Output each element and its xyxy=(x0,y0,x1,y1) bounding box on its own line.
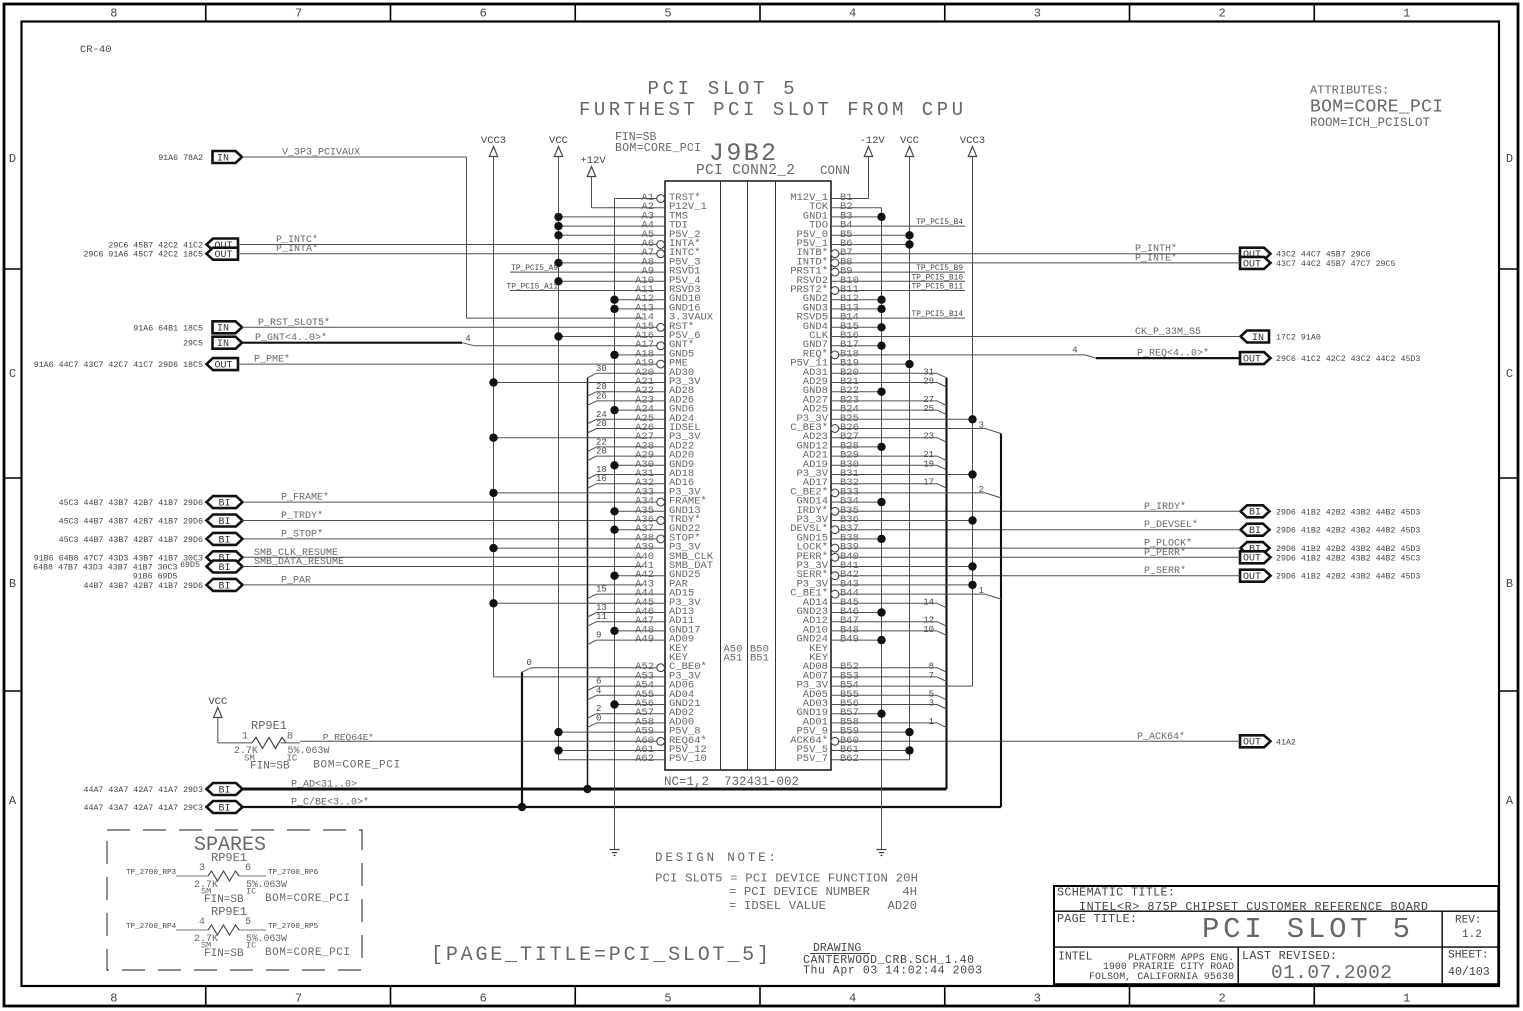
port IN P_RST_SLOT5* xyxy=(213,321,243,333)
port OUT P_PERR* xyxy=(1240,551,1271,563)
power symbol VCC xyxy=(214,708,222,718)
pin A49 AD09 xyxy=(587,631,694,646)
pin A50 KEY xyxy=(669,643,689,655)
pin A4 TDI xyxy=(554,220,688,232)
svg-text:1: 1 xyxy=(1403,7,1410,21)
svg-text:69D5: 69D5 xyxy=(180,561,200,570)
pin A22 AD28 xyxy=(587,382,694,397)
pin A9 RSVD1 xyxy=(510,265,701,278)
svg-text:91A6 64B1 18C5: 91A6 64B1 18C5 xyxy=(133,324,203,333)
svg-text:29C6 91A6 45C7 42C2 18C5: 29C6 91A6 45C7 42C2 18C5 xyxy=(84,251,204,260)
wire P_DEVSEL* from pin B37 xyxy=(839,529,1241,531)
wire P_INTA* to pin A7 xyxy=(238,253,657,255)
port IN V_3P3_PCIVAUX xyxy=(213,151,243,163)
svg-text:PCI SLOT5 = PCI DEVICE FUNCTIO: PCI SLOT5 = PCI DEVICE FUNCTION 20H xyxy=(655,872,918,886)
svg-text:TP_PCI5_B9: TP_PCI5_B9 xyxy=(916,265,963,273)
svg-text:B51: B51 xyxy=(750,653,769,665)
wire P_INTC* to pin A6 xyxy=(238,244,657,246)
port BI SMB_DATA_RESUME xyxy=(207,561,243,573)
svg-text:TP_PCI5_A9: TP_PCI5_A9 xyxy=(511,265,558,273)
svg-text:BI: BI xyxy=(1249,508,1261,519)
svg-text:SHEET:: SHEET: xyxy=(1448,949,1489,961)
pin A55 AD04 xyxy=(587,686,694,701)
svg-text:2: 2 xyxy=(979,485,984,495)
GND rail right xyxy=(881,208,883,850)
svg-text:BI: BI xyxy=(218,517,230,528)
pin A20 AD30 xyxy=(587,364,694,379)
svg-text:BI: BI xyxy=(1249,526,1261,537)
ground symbol left xyxy=(610,850,620,856)
svg-text:OUT: OUT xyxy=(1243,355,1261,366)
pin A46 AD13 xyxy=(587,603,694,618)
pin B38 GND15 xyxy=(796,532,885,544)
svg-text:= PCI DEVICE NUMBER: = PCI DEVICE NUMBER xyxy=(729,885,871,899)
svg-text:TP_2700_RP5: TP_2700_RP5 xyxy=(268,923,319,931)
svg-text:BI: BI xyxy=(218,563,230,574)
svg-text:3: 3 xyxy=(1034,992,1041,1006)
svg-text:2: 2 xyxy=(1218,7,1225,21)
bus P_AD<31..0> xyxy=(243,788,947,791)
svg-text:16: 16 xyxy=(596,474,607,484)
wire P_FRAME* to pin A34 xyxy=(243,501,657,503)
svg-text:17: 17 xyxy=(923,478,934,488)
power symbol +12V xyxy=(587,167,595,177)
pin A35 GND13 xyxy=(610,505,700,517)
svg-text:91A6 44C7 43C7 42C7 41C7 29D6: 91A6 44C7 43C7 42C7 41C7 29D6 18C5 xyxy=(34,361,203,370)
wire P_PLOCK* from pin B39 xyxy=(839,547,1241,549)
svg-text:IN: IN xyxy=(217,153,229,164)
power symbol VCC xyxy=(905,147,913,157)
svg-text:OUT: OUT xyxy=(1243,259,1261,270)
wire P_INTH* from pin B7 xyxy=(839,253,1240,255)
svg-text:VCC: VCC xyxy=(549,135,568,147)
bus P_C/BE<3..0>* xyxy=(243,806,1002,808)
port BI P_C/BE<3..0>* xyxy=(207,801,243,813)
pin A28 AD22 xyxy=(587,437,694,452)
svg-text:19: 19 xyxy=(923,459,934,469)
svg-text:A51: A51 xyxy=(724,653,743,665)
svg-text:1: 1 xyxy=(929,717,934,727)
svg-text:8: 8 xyxy=(110,992,117,1006)
pin A10 P5V_4 xyxy=(554,275,700,287)
svg-text:41A2: 41A2 xyxy=(1276,738,1296,747)
port BI P_FRAME* xyxy=(207,496,243,508)
svg-text:8: 8 xyxy=(287,731,293,743)
svg-text:TP_PCI5_B4: TP_PCI5_B4 xyxy=(916,219,963,227)
svg-text:25: 25 xyxy=(923,404,934,414)
svg-text:VCC3: VCC3 xyxy=(481,135,506,147)
wire P_REQ64E* to pin A60 xyxy=(281,742,301,744)
svg-text:IC: IC xyxy=(246,887,256,897)
pin A26 IDSEL xyxy=(587,419,700,434)
pin A41 SMB_DAT xyxy=(635,560,713,572)
pin B1 M12V_1 xyxy=(790,192,852,204)
pin B27 AD23 xyxy=(803,431,947,443)
svg-text:4H: 4H xyxy=(902,885,917,899)
pin B23 AD27 xyxy=(803,394,947,406)
svg-text:6: 6 xyxy=(245,863,251,874)
pin A58 AD00 xyxy=(587,713,694,728)
pin B17 GND7 xyxy=(803,339,886,351)
svg-text:0: 0 xyxy=(527,658,532,668)
svg-text:REV:: REV: xyxy=(1455,914,1481,926)
svg-text:CR-40: CR-40 xyxy=(80,44,112,56)
svg-text:64B8 47B7 43D3 43B7 41B7 30C3: 64B8 47B7 43D3 43B7 41B7 30C3 xyxy=(33,564,177,573)
pin B61 P5V_5 xyxy=(796,744,913,756)
port BI P_PAR xyxy=(207,579,243,591)
title block frame xyxy=(1054,886,1498,984)
pin A51 KEY xyxy=(669,652,689,664)
svg-text:IN: IN xyxy=(217,339,229,350)
pin B7 INTB* xyxy=(796,247,852,259)
port BI P_IRDY* xyxy=(1241,505,1270,517)
svg-text:P5V_10: P5V_10 xyxy=(669,753,707,765)
wire P_RST_SLOT5* to pin A15 xyxy=(242,326,657,328)
wire P_INTE* from pin B8 xyxy=(839,262,1240,264)
wire P_STOP* to pin A38 xyxy=(243,538,657,540)
port BI P_TRDY* xyxy=(207,515,243,527)
ground symbol right xyxy=(877,850,887,856)
svg-text:RP9E1: RP9E1 xyxy=(211,905,247,919)
pin A24 GND6 xyxy=(610,404,694,416)
svg-text:PAGE TITLE:: PAGE TITLE: xyxy=(1057,912,1137,926)
svg-text:4: 4 xyxy=(849,7,856,21)
pin A40 SMB_CLK xyxy=(635,551,714,563)
svg-text:29D6 41B2 42B2 43B2 44B2 45D3: 29D6 41B2 42B2 43B2 44B2 45D3 xyxy=(1276,527,1420,536)
pin B58 AD01 xyxy=(803,716,947,728)
svg-text:IN: IN xyxy=(1252,333,1264,344)
pin B30 AD19 xyxy=(803,459,947,471)
svg-text:BI: BI xyxy=(218,803,230,814)
resistor RP9E1 pin 1 lead xyxy=(218,742,252,744)
pin A8 P5V_3 xyxy=(554,256,700,268)
port OUT P_REQ<4..0>* xyxy=(1240,352,1271,364)
svg-text:RP9E1: RP9E1 xyxy=(251,719,287,733)
svg-text:5: 5 xyxy=(664,7,671,21)
pin B12 GND2 xyxy=(803,293,886,305)
svg-text:29C6 41C2 42C2 43C2 44C2 45D3: 29C6 41C2 42C2 43C2 44C2 45D3 xyxy=(1276,355,1420,364)
svg-text:D: D xyxy=(9,152,16,166)
svg-text:CONN: CONN xyxy=(820,164,850,178)
svg-text:A: A xyxy=(1506,794,1514,808)
AD bus bracket right xyxy=(945,378,947,789)
power symbol VCC3 xyxy=(968,147,976,157)
pin B43 P3_3V xyxy=(796,578,976,590)
pin B59 P5V_9 xyxy=(796,726,913,738)
svg-text:1: 1 xyxy=(242,731,248,743)
svg-text:30: 30 xyxy=(596,364,607,374)
pin B34 GND14 xyxy=(796,496,885,508)
svg-text:TP_2700_RP3: TP_2700_RP3 xyxy=(126,869,177,877)
pin B13 GND3 xyxy=(803,302,886,314)
wire P_ACK64* from pin B60 xyxy=(839,740,1240,742)
pin A21 P3_3V xyxy=(489,376,701,388)
svg-text:-12V: -12V xyxy=(860,135,886,147)
svg-text:TP_PCI5_A11: TP_PCI5_A11 xyxy=(507,284,559,292)
svg-text:BI: BI xyxy=(218,581,230,592)
svg-text:BOM=CORE_PCI: BOM=CORE_PCI xyxy=(265,893,350,905)
svg-text:7: 7 xyxy=(929,671,934,681)
pin B51 KEY xyxy=(809,652,829,664)
svg-text:44A7 43A7 42A7 41A7 29D3: 44A7 43A7 42A7 41A7 29D3 xyxy=(84,786,204,795)
pin A7 INTC* xyxy=(641,247,700,259)
pin A62 P5V_10 xyxy=(559,753,707,765)
svg-text:44B7 43B7 42B7 41B7 29D6: 44B7 43B7 42B7 41B7 29D6 xyxy=(84,582,204,591)
port OUT P_INTC* xyxy=(207,239,239,251)
pin A6 INTA* xyxy=(641,238,700,250)
svg-text:FIN=SB: FIN=SB xyxy=(204,948,244,960)
svg-text:P5V_7: P5V_7 xyxy=(796,753,828,765)
pin A39 P3_3V xyxy=(489,542,701,554)
pin B21 AD29 xyxy=(803,376,947,388)
svg-text:10: 10 xyxy=(923,625,934,635)
svg-text:BOM=CORE_PCI: BOM=CORE_PCI xyxy=(615,142,701,155)
pin B3 GND1 xyxy=(803,210,886,222)
svg-text:29D6 41B2 42B2 43B2 44B2 45D3: 29D6 41B2 42B2 43B2 44B2 45D3 xyxy=(1276,545,1420,554)
svg-text:ATTRIBUTES:: ATTRIBUTES: xyxy=(1310,84,1389,98)
svg-text:RP9E1: RP9E1 xyxy=(211,851,247,865)
svg-text:29D6 41B2 42B2 43B2 44B2 45C3: 29D6 41B2 42B2 43B2 44B2 45C3 xyxy=(1276,554,1420,563)
pin A11 RSVD3 xyxy=(507,284,701,297)
pin A19 PME xyxy=(635,358,688,370)
port OUT P_INTE* xyxy=(1240,257,1271,269)
wire V_3P3_PCIVAUX to pin A14 xyxy=(242,156,467,158)
pin A3 TMS xyxy=(554,210,688,222)
wire CK_P_33M_S5 from pin B16 xyxy=(831,336,1241,338)
pin B14 RSVD5 xyxy=(796,311,965,324)
svg-text:20: 20 xyxy=(596,447,607,457)
pin A57 AD02 xyxy=(587,704,694,719)
pin B49 GND24 xyxy=(796,634,885,646)
pin A30 GND9 xyxy=(610,459,694,471)
svg-text:5: 5 xyxy=(664,992,671,1006)
pin A48 GND17 xyxy=(610,624,700,636)
svg-text:23: 23 xyxy=(923,432,934,442)
svg-text:4: 4 xyxy=(465,334,470,344)
svg-text:29: 29 xyxy=(923,377,934,387)
pin B10 RSVD2 xyxy=(796,274,965,287)
pin B32 AD17 xyxy=(803,477,947,489)
pin A17 GNT* xyxy=(635,339,694,351)
port IN CK_P_33M_S5 xyxy=(1241,331,1270,343)
pin B53 AD07 xyxy=(803,670,947,682)
pin B40 PERR* xyxy=(796,551,858,563)
pin B60 ACK64* xyxy=(790,735,859,747)
spares enclosure xyxy=(107,830,362,970)
svg-text:17C2 91A0: 17C2 91A0 xyxy=(1276,334,1321,343)
pin A42 GND25 xyxy=(610,569,700,581)
svg-text:B: B xyxy=(9,577,16,591)
svg-text:4: 4 xyxy=(1072,345,1077,355)
svg-text:OUT: OUT xyxy=(1243,554,1261,565)
svg-text:[PAGE_TITLE=PCI_SLOT_5]: [PAGE_TITLE=PCI_SLOT_5] xyxy=(431,944,769,967)
svg-text:1: 1 xyxy=(979,586,984,596)
svg-text:44A7 43A7 42A7 41A7 29C3: 44A7 43A7 42A7 41A7 29C3 xyxy=(84,804,204,813)
svg-text:Thu Apr 03 14:02:44 2003: Thu Apr 03 14:02:44 2003 xyxy=(803,965,982,978)
svg-text:26: 26 xyxy=(596,391,607,401)
pin B24 AD25 xyxy=(803,404,947,416)
C/BE bus bracket left xyxy=(521,672,523,807)
pin A32 AD16 xyxy=(587,474,694,489)
svg-text:45C3 44B7 43B7 42B7 41B7 29D6: 45C3 44B7 43B7 42B7 41B7 29D6 xyxy=(59,536,203,545)
pin B5 P5V_0 xyxy=(796,229,913,241)
svg-text:PCI CONN2_2: PCI CONN2_2 xyxy=(696,163,795,179)
svg-text:OUT: OUT xyxy=(214,250,232,261)
wire P_PAR to pin A43 xyxy=(243,584,644,586)
pin B2 TCK xyxy=(809,201,853,213)
svg-text:29D6 41B2 42B2 43B2 44B2 45D3: 29D6 41B2 42B2 43B2 44B2 45D3 xyxy=(1276,508,1420,517)
svg-text:TP_PCI5_B14: TP_PCI5_B14 xyxy=(912,311,964,319)
pin B45 AD14 xyxy=(803,597,947,609)
svg-text:AD20: AD20 xyxy=(887,899,917,913)
wire -12V to pin B1 xyxy=(831,198,869,200)
port OUT P_ACK64* xyxy=(1240,735,1271,747)
pin A47 AD11 xyxy=(587,612,694,627)
pin B52 AD08 xyxy=(803,661,947,673)
power symbol -12V xyxy=(864,147,872,157)
pin B4 TDO xyxy=(809,219,965,232)
pin B39 LOCK* xyxy=(796,542,858,554)
pin A23 AD26 xyxy=(587,391,694,406)
wire SMB_DATA_RESUME to pin A41 xyxy=(243,566,644,568)
pin B28 GND12 xyxy=(796,440,885,452)
svg-text:43C7 44C2 45B7 47C7 29C5: 43C7 44C2 45B7 47C7 29C5 xyxy=(1276,260,1396,269)
bus P_GNT<4..0>* with bit-4 tap to pin A17 xyxy=(242,342,462,344)
pin A27 P3_3V xyxy=(489,431,701,443)
pin A34 FRAME* xyxy=(635,496,707,508)
svg-text:IN: IN xyxy=(217,324,229,335)
svg-text:OUT: OUT xyxy=(214,361,232,372)
pin B19 P5V_11 xyxy=(790,358,914,370)
svg-text:4: 4 xyxy=(596,686,601,696)
pin A15 RST* xyxy=(635,321,694,333)
port BI P_AD<31..0> xyxy=(207,783,243,795)
svg-text:7: 7 xyxy=(295,7,302,21)
pin B57 GND19 xyxy=(796,707,885,719)
svg-text:SCHEMATIC TITLE:: SCHEMATIC TITLE: xyxy=(1057,886,1175,900)
pin A31 AD18 xyxy=(587,465,694,480)
port BI P_PLOCK* xyxy=(1241,542,1270,554)
pin A52 C_BE0* xyxy=(522,658,707,673)
pin B36 P3_3V xyxy=(796,514,976,526)
pin B18 REQ* xyxy=(803,348,859,360)
pin B54 P3_3V xyxy=(796,680,972,692)
port IN P_GNT<4..0>* xyxy=(213,337,243,349)
svg-text:ROOM=ICH_PCISLOT: ROOM=ICH_PCISLOT xyxy=(1310,116,1431,130)
svg-text:NC=1,2: NC=1,2 xyxy=(664,775,709,789)
port OUT P_INTH* xyxy=(1240,248,1271,260)
svg-text:5: 5 xyxy=(245,917,251,928)
pin B47 AD12 xyxy=(803,615,947,627)
AD bus bracket left xyxy=(587,378,589,789)
svg-text:OUT: OUT xyxy=(1243,572,1261,583)
pin A14 3.3VAUX xyxy=(635,312,714,324)
svg-text:15: 15 xyxy=(596,585,607,595)
svg-text:11: 11 xyxy=(596,612,607,622)
port BI SMB_CLK_RESUME xyxy=(207,551,243,563)
pin A25 AD24 xyxy=(587,410,694,425)
pin A5 P5V_2 xyxy=(554,229,700,241)
pin B33 C_BE2* xyxy=(790,485,1001,499)
svg-text:IC: IC xyxy=(246,941,256,951)
svg-text:43C2 44C7 45B7 29C6: 43C2 44C7 45B7 29C6 xyxy=(1276,251,1371,260)
svg-text:3: 3 xyxy=(199,863,205,874)
pin B46 GND23 xyxy=(796,606,885,618)
pin B44 C_BE1* xyxy=(790,586,1001,600)
pin A1 TRST* xyxy=(641,192,700,204)
pin B62 P5V_7 xyxy=(796,753,909,765)
power symbol VCC xyxy=(554,147,562,157)
pin B55 AD05 xyxy=(803,689,947,701)
pin A60 REQ64* xyxy=(300,735,707,747)
pin B56 AD03 xyxy=(803,698,947,710)
svg-text:B: B xyxy=(1506,577,1513,591)
svg-text:VCC: VCC xyxy=(900,135,919,147)
pin A13 GND16 xyxy=(610,302,700,314)
svg-text:20: 20 xyxy=(596,419,607,429)
pin A53 P3_3V xyxy=(494,670,702,682)
pin A12 GND10 xyxy=(610,293,700,305)
pin A56 GND21 xyxy=(610,698,700,710)
svg-text:BOM=CORE_PCI: BOM=CORE_PCI xyxy=(265,947,350,959)
svg-text:INTEL: INTEL xyxy=(1058,951,1093,964)
svg-text:8: 8 xyxy=(110,7,117,21)
resistor RP9E1 xyxy=(252,737,286,748)
wire P_PME* to pin A19 xyxy=(238,363,657,365)
pin A33 P3_3V xyxy=(489,486,701,498)
wire P_PERR* from pin B40 xyxy=(839,556,1240,558)
svg-text:91B6 64B8 47C7 43D3 43B7 41B7: 91B6 64B8 47C7 43D3 43B7 41B7 30C3 xyxy=(34,554,203,563)
C/BE bus bracket right xyxy=(1000,434,1002,808)
svg-text:3: 3 xyxy=(979,421,984,431)
pin A54 AD06 xyxy=(587,677,694,692)
svg-text:BOM=CORE_PCI: BOM=CORE_PCI xyxy=(1310,98,1443,118)
svg-text:29C6 45B7 42C2 41C2: 29C6 45B7 42C2 41C2 xyxy=(108,242,203,251)
pin B15 GND4 xyxy=(803,321,886,333)
pin A38 STOP* xyxy=(635,532,700,544)
svg-text:A: A xyxy=(9,794,17,808)
svg-text:29C5: 29C5 xyxy=(183,340,203,349)
svg-text:D: D xyxy=(1506,152,1513,166)
svg-text:VCC3: VCC3 xyxy=(960,135,985,147)
svg-text:0: 0 xyxy=(596,713,601,723)
svg-text:VCC: VCC xyxy=(208,696,227,708)
pin B41 P3_3V xyxy=(796,560,976,572)
svg-text:4: 4 xyxy=(199,917,205,928)
pin A45 P3_3V xyxy=(489,597,701,609)
connector J9B2 body xyxy=(665,181,831,770)
zone column ticks xyxy=(205,4,207,22)
svg-text:4: 4 xyxy=(849,992,856,1006)
svg-text:BI: BI xyxy=(218,535,230,546)
port BI P_DEVSEL* xyxy=(1241,524,1270,536)
svg-text:OUT: OUT xyxy=(1243,738,1261,749)
pin A29 AD20 xyxy=(587,447,694,462)
wire P_TRDY* to pin A36 xyxy=(243,520,657,522)
svg-text:01.07.2002: 01.07.2002 xyxy=(1271,962,1392,984)
bus P_REQ<4..0>* with bit-4 tap from pin B18 xyxy=(839,354,1085,356)
port OUT P_INTA* xyxy=(207,248,239,260)
pin B11 PRST2* xyxy=(790,284,965,297)
pin A59 P5V_8 xyxy=(554,726,700,738)
svg-text:9: 9 xyxy=(596,631,601,641)
wire P_SERR* from pin B42 xyxy=(839,575,1240,577)
pin B37 DEVSL* xyxy=(790,523,859,535)
svg-text:3: 3 xyxy=(929,699,934,709)
zone row ticks xyxy=(4,268,22,270)
svg-text:TP_2700_RP4: TP_2700_RP4 xyxy=(126,923,177,931)
pin B35 IRDY* xyxy=(796,505,858,517)
